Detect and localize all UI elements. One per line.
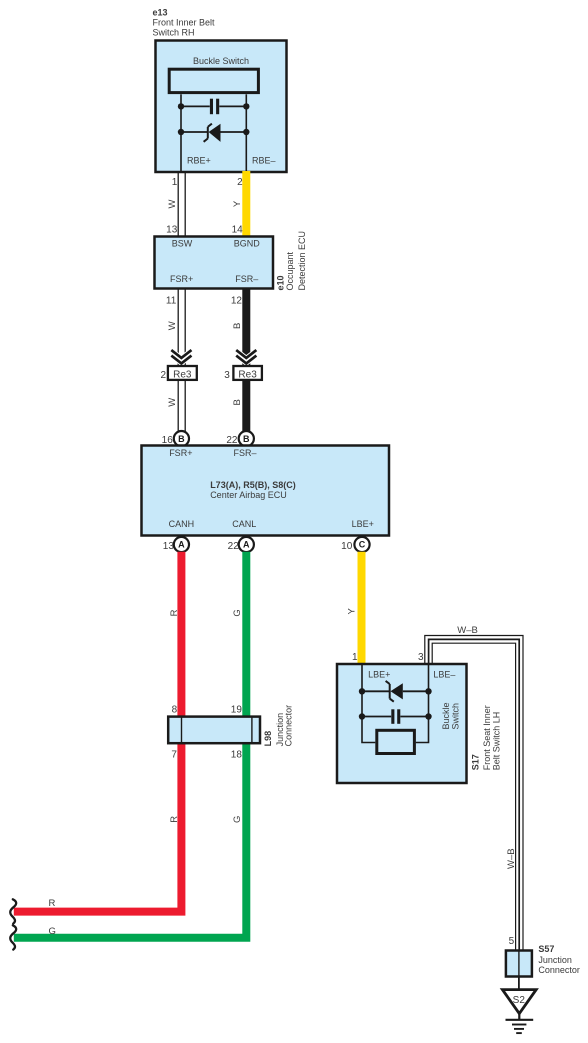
junction connector L98 box (168, 717, 260, 744)
junction connector S57 box (506, 951, 532, 977)
svg-text:S2: S2 (513, 995, 526, 1006)
svg-text:RBE–: RBE– (252, 155, 276, 165)
wire S57 to ground triangle (518, 977, 520, 990)
svg-text:LBE+: LBE+ (352, 519, 374, 529)
wire internal S17 left (362, 664, 375, 743)
chevron arrow into Re3 left (172, 351, 190, 364)
label S17 Front Seat Inner Belt Switch LH (470, 705, 501, 770)
svg-text:1: 1 (352, 652, 358, 663)
svg-text:G: G (232, 816, 243, 823)
svg-text:13: 13 (166, 225, 178, 236)
svg-text:3: 3 (224, 370, 230, 381)
svg-text:Buckle: Buckle (441, 702, 451, 729)
svg-text:22: 22 (228, 541, 240, 552)
svg-text:W–B: W–B (457, 625, 478, 636)
svg-text:Detection ECU: Detection ECU (297, 231, 307, 291)
svg-text:7: 7 (171, 750, 177, 761)
wire break squiggle (R wire, left edge) (10, 899, 16, 923)
svg-text:10: 10 (341, 541, 353, 552)
svg-text:1: 1 (172, 177, 178, 188)
belt switch S17 box (337, 664, 467, 783)
label e10 Occupant Detection ECU (275, 231, 307, 291)
svg-text:A: A (178, 540, 185, 550)
connector e13 box (156, 41, 287, 173)
wire W from e10 pin11 to connector Re3 and pin 16 (178, 289, 185, 432)
label S57 Junction Connector (538, 944, 580, 975)
svg-text:Re3: Re3 (173, 370, 192, 381)
ECU L73(A), R5(B), S8(C) Center Airbag ECU box (142, 446, 390, 536)
switch element inside S17 (377, 730, 415, 753)
svg-text:W: W (167, 321, 178, 330)
capacitor inside S17 (362, 709, 429, 724)
svg-text:2: 2 (160, 370, 166, 381)
wire G CANL from pin 22(A) down and left to edge (14, 552, 247, 938)
svg-text:14: 14 (232, 225, 244, 236)
svg-text:R: R (169, 609, 180, 616)
capacitor inside e13 (181, 99, 246, 115)
svg-text:B: B (232, 323, 243, 329)
svg-text:12: 12 (231, 295, 243, 306)
label Buckle Switch (S17, vertical) (441, 702, 461, 729)
ground symbol (506, 1014, 534, 1034)
svg-text:Front Seat Inner: Front Seat Inner (482, 705, 492, 770)
svg-text:C: C (359, 540, 366, 550)
wire internal e13 right (RBE-) (245, 94, 247, 171)
svg-text:A: A (243, 540, 250, 550)
svg-text:Junction: Junction (538, 955, 572, 965)
svg-text:Switch: Switch (451, 703, 461, 730)
svg-text:e13: e13 (153, 8, 168, 18)
wire B from e10 pin12 to connector Re3 and pin 22 (242, 289, 250, 432)
svg-text:RBE+: RBE+ (187, 155, 211, 165)
wire Y LBE+ from pin 10(C) to S17 pin 1 (358, 552, 366, 665)
svg-text:Belt Switch LH: Belt Switch LH (491, 712, 501, 771)
svg-text:W–B: W–B (506, 848, 517, 869)
svg-text:8: 8 (172, 704, 178, 715)
svg-text:FSR+: FSR+ (169, 448, 192, 458)
ECU e10 box (155, 237, 274, 289)
svg-text:Connector: Connector (284, 705, 294, 747)
wire internal S17 right (416, 664, 429, 743)
svg-text:R: R (49, 898, 56, 909)
connector Re3 right box (233, 366, 262, 380)
svg-text:Buckle Switch: Buckle Switch (193, 56, 249, 66)
svg-text:Re3: Re3 (238, 370, 257, 381)
svg-text:13: 13 (163, 541, 175, 552)
junction dots e13 (178, 103, 250, 135)
svg-text:18: 18 (231, 750, 243, 761)
svg-text:B: B (232, 399, 243, 405)
pin 22 circle B (Center Airbag ECU) (226, 431, 254, 446)
label L98 Junction Connector (263, 705, 294, 747)
wire W-B from S17 pin 3 to S57 pin 5 (white wire, black tracer) (425, 636, 523, 951)
pin 13 circle A (CANH) (163, 537, 189, 552)
wire W from e13 pin1 to e10 pin13 (178, 172, 185, 237)
svg-text:G: G (49, 926, 56, 937)
svg-text:R: R (169, 816, 180, 823)
svg-text:B: B (178, 434, 185, 444)
svg-text:5: 5 (509, 936, 515, 947)
svg-text:B: B (243, 434, 250, 444)
wire R CANH from pin 13(A) down and left to edge (14, 552, 182, 912)
svg-text:Center Airbag ECU: Center Airbag ECU (210, 490, 287, 500)
svg-text:e10: e10 (275, 275, 285, 290)
svg-text:S17: S17 (470, 754, 480, 770)
svg-text:BSW: BSW (172, 238, 193, 248)
svg-text:2: 2 (237, 177, 243, 188)
chevron arrow into Re3 right (237, 351, 255, 364)
junction dots S17 (359, 688, 432, 720)
svg-text:W: W (167, 199, 178, 208)
wire Y from e13 pin2 to e10 pin14 (242, 171, 250, 237)
zener diode inside S17 (362, 681, 429, 702)
svg-text:3: 3 (418, 652, 424, 663)
svg-text:BGND: BGND (234, 238, 261, 248)
svg-text:CANL: CANL (232, 519, 256, 529)
pin 22 circle A (CANL) (228, 537, 254, 552)
connector Re3 left box (168, 366, 197, 380)
pin 10 circle C (LBE+) (341, 537, 369, 552)
label e13 Front Inner Belt Switch RH (153, 8, 216, 38)
svg-text:FSR–: FSR– (234, 448, 257, 458)
switch element inside e13 (169, 69, 258, 92)
svg-text:LBE+: LBE+ (368, 670, 390, 680)
svg-text:L98: L98 (263, 731, 273, 747)
svg-text:CANH: CANH (169, 519, 195, 529)
svg-text:Y: Y (346, 607, 357, 614)
svg-text:FSR–: FSR– (235, 274, 258, 284)
wire break squiggle (G wire, left edge) (10, 925, 16, 949)
svg-text:Occupant: Occupant (285, 251, 295, 290)
svg-text:S57: S57 (538, 944, 554, 954)
svg-text:19: 19 (231, 704, 243, 715)
svg-text:Y: Y (232, 200, 243, 207)
svg-text:G: G (232, 609, 243, 616)
wire internal e13 left (RBE+) (180, 94, 182, 171)
svg-text:W: W (167, 398, 178, 407)
svg-text:11: 11 (166, 295, 177, 306)
ground point triangle S2 (502, 990, 536, 1014)
pin 16 circle B (Center Airbag ECU) (162, 431, 189, 446)
svg-text:LBE–: LBE– (433, 670, 455, 680)
svg-text:L73(A), R5(B), S8(C): L73(A), R5(B), S8(C) (210, 480, 296, 490)
svg-text:Front Inner Belt: Front Inner Belt (153, 18, 216, 28)
svg-text:FSR+: FSR+ (170, 274, 193, 284)
zener diode inside e13 (181, 124, 246, 142)
svg-text:Switch RH: Switch RH (153, 27, 195, 37)
svg-text:Connector: Connector (538, 965, 580, 975)
